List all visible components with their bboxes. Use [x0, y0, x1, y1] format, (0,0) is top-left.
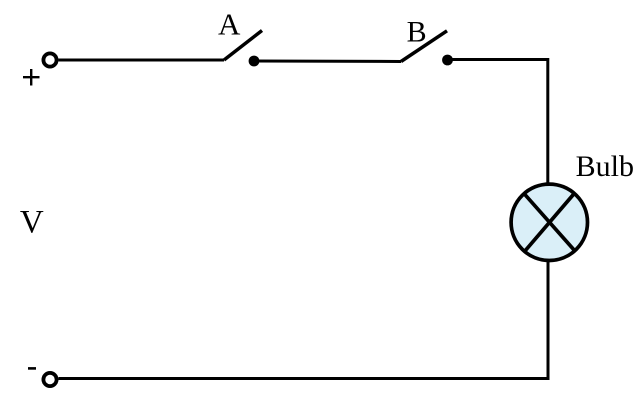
bulb X stroke 2: [525, 194, 574, 251]
switch A contact dot: [249, 56, 260, 67]
svg-text:Bulb: Bulb: [576, 150, 634, 183]
- label: [28, 367, 36, 370]
terminal + (positive, open circle): [43, 53, 56, 66]
terminal - (negative, open circle): [43, 373, 56, 386]
bulb lamp circle: [511, 184, 587, 260]
wire: + terminal to switch A hinge: [59, 59, 225, 62]
wire: bulb bottom to bottom-right corner to - terminal: [59, 260, 549, 379]
+ label: [23, 69, 40, 86]
bulb X stroke 1: [525, 194, 575, 250]
wire: switch B to top-right corner and down to bulb: [448, 60, 548, 186]
svg-text:V: V: [20, 204, 44, 240]
switch B blade (open): [401, 31, 447, 62]
switch B contact dot: [442, 55, 453, 66]
svg-text:B: B: [407, 15, 427, 48]
switch A blade (open): [224, 31, 262, 61]
wire: switch A to switch B hinge: [254, 60, 401, 64]
svg-text:A: A: [218, 7, 241, 42]
